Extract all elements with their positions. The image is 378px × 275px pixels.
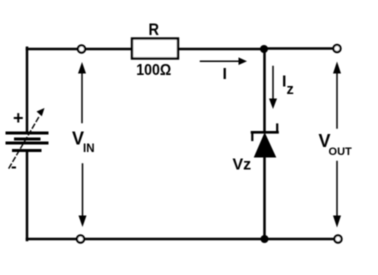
battery B1 plates xyxy=(7,133,47,151)
current arrow Iz xyxy=(269,67,277,110)
junction top node xyxy=(260,45,268,53)
terminal top-left xyxy=(78,45,85,52)
wire left vertical (source to top) xyxy=(26,48,29,133)
zener diode D1 xyxy=(252,125,278,158)
wire bottom segment xyxy=(27,238,338,241)
battery variable dashed arrow xyxy=(9,108,45,168)
svg-text:I: I xyxy=(223,66,227,83)
terminal top-right xyxy=(333,45,340,52)
svg-text:Vz: Vz xyxy=(233,157,252,174)
terminal bottom-right xyxy=(334,235,341,242)
resistor R box xyxy=(132,39,178,59)
voltage arrow Vin up xyxy=(78,62,86,123)
voltage arrow Vin down xyxy=(79,164,87,227)
current arrow I xyxy=(201,57,248,65)
svg-text:100Ω: 100Ω xyxy=(136,62,171,79)
wire top-middle segment xyxy=(178,48,264,51)
wire zener branch upper xyxy=(263,49,266,132)
wire zener branch lower xyxy=(263,157,266,239)
svg-text:+: + xyxy=(13,108,24,128)
voltage arrow Vout down xyxy=(333,162,341,228)
terminal bottom-left xyxy=(77,235,84,242)
junction bottom node xyxy=(261,235,269,243)
wire top-left segment xyxy=(27,48,132,51)
wire top-right segment xyxy=(264,47,333,50)
svg-text:R: R xyxy=(149,20,160,39)
voltage arrow Vout up xyxy=(333,62,341,129)
wire left vertical (battery to bottom) xyxy=(26,151,29,241)
